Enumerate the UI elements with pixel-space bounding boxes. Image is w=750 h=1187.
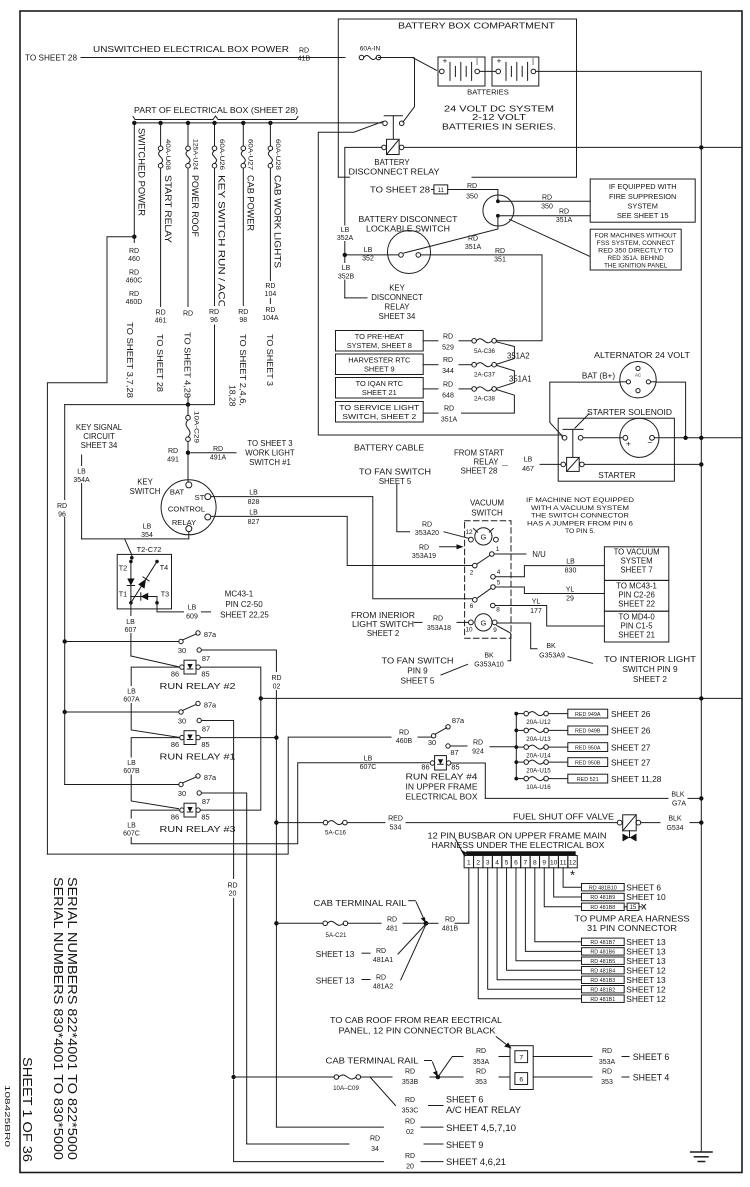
svg-text:RD: RD [444, 406, 454, 413]
svg-text:RD: RD [473, 739, 483, 746]
node column x=270.4 [268, 121, 272, 125]
jumpers 351A2 351A1 [495, 340, 497, 343]
svg-text:353: 353 [601, 1079, 613, 1086]
svg-text:RD: RD [129, 248, 139, 255]
blade wire down-left [318, 122, 562, 438]
svg-text:30: 30 [428, 738, 436, 747]
fuse 10A-C09 [334, 1075, 339, 1080]
svg-text:RD 481B5: RD 481B5 [590, 959, 615, 965]
svg-text:60A-U27: 60A-U27 [247, 139, 254, 171]
svg-text:FUEL SHUT OFF VALVE: FUEL SHUT OFF VALVE [513, 813, 615, 822]
svg-text:353: 353 [475, 1079, 487, 1086]
svg-text:RD: RD [443, 357, 453, 364]
svg-text:SHEET 13: SHEET 13 [626, 937, 666, 947]
wire RD 351A row4 [423, 412, 438, 414]
svg-text:SHEET 13: SHEET 13 [316, 977, 355, 986]
svg-text:FOR MACHINES WITHOUT: FOR MACHINES WITHOUT [595, 233, 677, 240]
svg-text:RD: RD [265, 307, 275, 314]
svg-text:LB: LB [249, 490, 258, 497]
svg-text:85: 85 [201, 670, 209, 679]
svg-text:TO PRE-HEAT: TO PRE-HEAT [355, 332, 404, 341]
svg-text:5: 5 [505, 860, 509, 867]
busbar pin boxes 1-12 [464, 856, 473, 868]
svg-text:PANEL, 12 PIN CONNECTOR BLACK: PANEL, 12 PIN CONNECTOR BLACK [339, 1027, 497, 1036]
svg-text:RD: RD [559, 209, 569, 216]
svg-text:SHEET 10: SHEET 10 [626, 892, 666, 902]
arrow to connector from PANEL text [496, 1037, 509, 1047]
svg-text:SERIAL NUMBERS 822*4001 TO 822: SERIAL NUMBERS 822*4001 TO 822*5000 [65, 877, 79, 1160]
svg-text:491: 491 [167, 457, 179, 464]
svg-text:RD: RD [495, 248, 505, 255]
svg-text:CAB TERMINAL RAIL: CAB TERMINAL RAIL [326, 1057, 420, 1066]
svg-text:351A2: 351A2 [507, 352, 530, 361]
svg-text:RED 949A: RED 949A [575, 712, 601, 718]
svg-text:PIN C2-50: PIN C2-50 [225, 600, 263, 609]
wire RD 353A diagonal and to pin 7 [438, 1057, 463, 1078]
diode D2 diagonal T1-T4 [131, 562, 157, 603]
svg-text:344: 344 [442, 368, 454, 375]
svg-text:LB: LB [127, 760, 136, 767]
wire: fuse node down to disconnect switch [403, 58, 415, 122]
svg-text:POWER ROOF: POWER ROOF [190, 175, 200, 237]
svg-text:12: 12 [569, 860, 577, 867]
node column x=188.0 [186, 121, 190, 125]
wire LB607C chain to relay4 [131, 810, 180, 818]
svg-text:LB: LB [566, 559, 575, 566]
svg-text:RD: RD [399, 730, 409, 737]
svg-text:RD: RD [405, 1119, 415, 1126]
svg-text:LB: LB [524, 457, 533, 464]
svg-text:125A-U24: 125A-U24 [191, 139, 198, 170]
svg-text:PIN 9: PIN 9 [407, 667, 428, 676]
svg-text:START RELAY: START RELAY [163, 175, 173, 243]
labels RD460 stack [120, 243, 149, 307]
svg-text:RD: RD [422, 522, 432, 529]
wire RD 491A [191, 452, 236, 454]
svg-text:TO SERVICE LIGHT: TO SERVICE LIGHT [339, 403, 420, 412]
svg-text:9: 9 [493, 627, 497, 634]
svg-text:352B: 352B [338, 274, 355, 281]
svg-text:2: 2 [470, 570, 474, 577]
brace: part of electrical box [133, 116, 298, 120]
pin 2 [473, 563, 478, 568]
label RD 461 [149, 307, 172, 326]
svg-text:G7A: G7A [672, 801, 686, 808]
wire: L to left bus [47, 237, 134, 854]
svg-text:RD: RD [168, 448, 178, 455]
svg-text:SHEET 6: SHEET 6 [626, 882, 661, 892]
svg-text:TO MC43-1: TO MC43-1 [616, 582, 657, 591]
wire RD 353A18 [414, 621, 422, 623]
leader 12 pin busbar [456, 839, 465, 856]
svg-text:LB: LB [127, 823, 136, 830]
label RD 96 col4 [203, 306, 226, 325]
wire relay2 87 -> RD02 [201, 650, 276, 672]
svg-text:RUN RELAY #3: RUN RELAY #3 [160, 825, 236, 834]
svg-text:THE IGNITION PANEL: THE IGNITION PANEL [604, 263, 668, 270]
svg-text:LB: LB [77, 469, 86, 476]
svg-text:1: 1 [496, 546, 500, 553]
svg-text:TO PUMP AREA HARNESS: TO PUMP AREA HARNESS [575, 915, 690, 924]
wire LB 352 [345, 254, 399, 256]
svg-text:353A18: 353A18 [427, 625, 451, 632]
svg-text:41B: 41B [298, 56, 311, 63]
svg-text:4: 4 [497, 569, 501, 576]
wire RD924 to fuse bank [450, 745, 467, 747]
svg-text:11: 11 [438, 188, 445, 194]
svg-text:02: 02 [273, 684, 281, 691]
label LB 354 [136, 521, 158, 538]
svg-text:9: 9 [542, 860, 546, 867]
svg-text:STARTER SOLENOID: STARTER SOLENOID [587, 408, 672, 417]
svg-text:RD 481B8: RD 481B8 [590, 905, 615, 911]
svg-text:SHEET 5: SHEET 5 [401, 677, 435, 686]
svg-text:SHEET 6: SHEET 6 [446, 1095, 483, 1105]
label RD 20 vertical [222, 879, 244, 898]
svg-text:481A2: 481A2 [373, 984, 393, 991]
connector 12pin black: outer box [510, 1046, 533, 1090]
sheet label boxes [582, 884, 625, 891]
svg-text:RD: RD [405, 1097, 415, 1104]
fuse 10A-C29 [187, 405, 189, 416]
svg-text:IF MACHINE NOT EQUIPPED: IF MACHINE NOT EQUIPPED [526, 497, 634, 504]
svg-text:SYSTEM: SYSTEM [628, 202, 658, 211]
svg-text:DISCONNECT RELAY: DISCONNECT RELAY [349, 168, 441, 177]
label RD 96 left [52, 500, 73, 517]
svg-text:RD: RD [156, 310, 166, 317]
svg-text:SHEET 34: SHEET 34 [81, 441, 118, 450]
svg-text:TO SHEET 3,7,28: TO SHEET 3,7,28 [125, 322, 135, 398]
battery box compartment outline [338, 19, 576, 177]
svg-text:RED 950B: RED 950B [575, 760, 601, 766]
svg-text:30: 30 [178, 717, 186, 726]
svg-text:6: 6 [519, 1076, 523, 1083]
svg-text:LB: LB [188, 605, 197, 612]
svg-text:PART OF ELECTRICAL BOX (SHEET: PART OF ELECTRICAL BOX (SHEET 28) [134, 106, 298, 115]
battery disconnect relay coil K1 [387, 139, 400, 154]
node column x=243.3 [241, 121, 245, 125]
leader cab terminal rail [409, 900, 416, 902]
label LB 354A [70, 466, 94, 483]
svg-text:ALTERNATOR 24 VOLT: ALTERNATOR 24 VOLT [594, 351, 690, 360]
svg-text:—: — [502, 463, 508, 469]
svg-text:T1: T1 [119, 590, 127, 599]
svg-text:LB: LB [127, 689, 136, 696]
svg-text:BATTERY BOX COMPARTMENT: BATTERY BOX COMPARTMENT [398, 21, 555, 31]
svg-text:YL: YL [532, 599, 541, 606]
wire RD 353A20 [397, 484, 410, 531]
svg-text:BLK: BLK [668, 816, 682, 823]
svg-text:PIN C1-5: PIN C1-5 [621, 622, 654, 631]
svg-text:RED 950A: RED 950A [575, 745, 601, 751]
svg-text:352: 352 [362, 256, 374, 263]
svg-text:N/U: N/U [532, 550, 546, 559]
label LB 352B [334, 263, 357, 280]
ignition switch S2 [483, 195, 514, 226]
svg-text:351A1: 351A1 [509, 375, 532, 384]
svg-text:KEY SWITCH RUN / ACC: KEY SWITCH RUN / ACC [217, 175, 227, 308]
svg-text:RD: RD [602, 1048, 612, 1055]
svg-text:353A: 353A [473, 1059, 490, 1066]
svg-text:TO FAN SWITCH: TO FAN SWITCH [382, 657, 454, 666]
svg-text:SHEET 22,25: SHEET 22,25 [220, 611, 269, 620]
svg-text:STARTER: STARTER [598, 471, 636, 480]
svg-text:10A-C29: 10A-C29 [193, 411, 200, 444]
svg-text:830: 830 [565, 568, 577, 575]
svg-text:87a: 87a [204, 773, 217, 782]
svg-text:CAB WORK LIGHTS: CAB WORK LIGHTS [273, 175, 283, 268]
svg-text:RD 481B7: RD 481B7 [590, 940, 615, 946]
svg-text:RD: RD [542, 195, 552, 202]
svg-text:SEE SHEET 15: SEE SHEET 15 [617, 211, 669, 220]
svg-text:351: 351 [494, 257, 506, 264]
svg-text:RD: RD [602, 1069, 612, 1076]
svg-text:RD 481B10: RD 481B10 [589, 885, 617, 891]
relay RUN RELAY #2 [179, 639, 183, 643]
svg-text:SHEET 1 OF 36: SHEET 1 OF 36 [20, 1057, 34, 1162]
svg-text:18,28: 18,28 [228, 385, 238, 407]
label LB 607C left [119, 820, 145, 837]
svg-text:G: G [480, 533, 486, 542]
svg-text:RD: RD [476, 1048, 486, 1055]
svg-text:20A-U14: 20A-U14 [526, 753, 551, 760]
wire RD 351A diagonal to lockable switch [404, 216, 498, 253]
svg-text:LIGHT SWITCH: LIGHT SWITCH [352, 620, 414, 629]
svg-text:RD: RD [227, 883, 237, 890]
svg-text:352A: 352A [337, 235, 354, 242]
connector 15 box [624, 906, 627, 908]
svg-text:460D: 460D [126, 299, 143, 306]
arrow RD 353A19 [440, 546, 460, 548]
svg-text:LB: LB [364, 756, 373, 763]
node column x=214.5 [212, 121, 216, 125]
svg-text:SHEET 12: SHEET 12 [626, 994, 666, 1004]
svg-text:30: 30 [178, 789, 186, 798]
svg-text:353A20: 353A20 [415, 530, 439, 537]
svg-text:LB: LB [143, 524, 152, 531]
pin 1 [490, 552, 495, 557]
pin 8 [491, 603, 496, 608]
wire between batteries [480, 70, 496, 72]
svg-text:SHEET 4: SHEET 4 [633, 1073, 670, 1083]
wires pins 2-11 to sheet boxes [563, 868, 581, 887]
svg-text:SHEET 2: SHEET 2 [633, 675, 667, 684]
motor G bottom [475, 614, 492, 631]
svg-text:353C: 353C [402, 1108, 419, 1115]
svg-text:SHEET 13: SHEET 13 [626, 956, 666, 966]
label TO SHEET 3,7,28 [130, 311, 132, 318]
svg-text:TO MD4-0: TO MD4-0 [618, 613, 655, 622]
svg-text:SHEET 5: SHEET 5 [379, 477, 412, 486]
svg-text:353A: 353A [599, 1059, 616, 1066]
svg-text:−: − [647, 437, 652, 447]
svg-text:10A-U16: 10A-U16 [526, 784, 551, 791]
svg-text:RD 481B4: RD 481B4 [590, 968, 615, 974]
coil left wire to LB352 node [345, 147, 382, 252]
svg-text:G353A10: G353A10 [474, 662, 504, 669]
wire T3 to LB609 [157, 603, 184, 612]
svg-text:LB: LB [126, 619, 135, 626]
svg-text:104: 104 [265, 291, 277, 298]
relay RUN RELAY #3 [179, 782, 183, 786]
fuse 20A-U12 [514, 712, 518, 716]
svg-text:BK: BK [546, 643, 556, 650]
wire RD 34 exit [247, 1143, 349, 1146]
svg-text:+: + [626, 438, 631, 448]
label LB 607A [119, 686, 145, 703]
svg-text:KEY: KEY [137, 478, 153, 487]
wire YL 177 [495, 606, 604, 627]
svg-text:351A: 351A [465, 244, 482, 251]
svg-text:RED 949B: RED 949B [575, 729, 601, 735]
svg-text:RD: RD [238, 309, 248, 316]
leader cab terminal rail 2 [425, 1060, 432, 1062]
svg-text:460B: 460B [396, 738, 413, 745]
svg-text:SHEET 26: SHEET 26 [611, 709, 651, 719]
svg-text:TO INTERIOR LIGHT: TO INTERIOR LIGHT [604, 655, 696, 664]
wire LB 827 [211, 516, 473, 565]
svg-text:RD: RD [405, 1153, 415, 1160]
alternator G1 [620, 362, 656, 398]
svg-text:534: 534 [390, 825, 402, 832]
svg-text:SHEET 4,5,7,10: SHEET 4,5,7,10 [446, 1123, 516, 1133]
wire RD 350 to ignition sw [432, 189, 434, 191]
svg-text:SHEET 21: SHEET 21 [618, 631, 655, 640]
svg-text:34: 34 [371, 1146, 379, 1153]
fuse 20A-U14 [514, 745, 518, 749]
svg-text:491A: 491A [210, 455, 227, 462]
svg-text:FROM INERIOR: FROM INERIOR [351, 611, 415, 620]
svg-text:7: 7 [524, 860, 528, 867]
svg-text:TO VACUUM: TO VACUUM [614, 548, 660, 557]
svg-text:20A-U15: 20A-U15 [526, 768, 551, 775]
svg-text:87: 87 [202, 725, 210, 734]
wire to battery + [413, 58, 436, 71]
svg-text:461: 461 [155, 318, 167, 325]
battery disconnect switch contacts [383, 121, 388, 126]
svg-text:10A–C09: 10A–C09 [333, 1085, 359, 1092]
svg-text:RUN RELAY #1: RUN RELAY #1 [160, 753, 236, 762]
wire RD 351A right [500, 215, 590, 217]
svg-text:TO IQAN RTC: TO IQAN RTC [356, 379, 404, 388]
svg-text:98: 98 [239, 317, 247, 324]
svg-text:29: 29 [566, 596, 574, 603]
svg-text:607C: 607C [360, 764, 377, 771]
svg-text:KEY: KEY [389, 284, 405, 293]
svg-text:RD: RD [405, 1069, 415, 1076]
svg-text:RELAY: RELAY [474, 458, 500, 467]
wire LB607B chain [131, 738, 180, 809]
svg-text:607A: 607A [123, 697, 140, 704]
svg-text:A/C HEAT RELAY: A/C HEAT RELAY [446, 1105, 521, 1115]
diode pack T2-C72 [117, 554, 171, 609]
note box: for machines without FSS [590, 229, 681, 270]
wire YL 29 [495, 587, 604, 594]
svg-text:20: 20 [406, 1164, 414, 1171]
connector 11 box [434, 185, 448, 194]
wire RD460B loop to relay4 30 [47, 737, 391, 854]
wire RD 353 to pin 6 connector [438, 1076, 463, 1078]
svg-text:5A-C16: 5A-C16 [325, 830, 347, 837]
svg-text:12: 12 [465, 529, 473, 536]
svg-text:+: + [443, 57, 448, 66]
svg-text:LB: LB [341, 227, 350, 234]
svg-text:104A: 104A [262, 315, 279, 322]
node column x=160.6 [158, 121, 162, 125]
svg-text:G534: G534 [666, 825, 683, 832]
fuse 20A-U13 [514, 729, 518, 733]
svg-text:IF EQUIPPED WITH: IF EQUIPPED WITH [609, 182, 677, 191]
svg-text:LOCKABLE SWITCH: LOCKABLE SWITCH [366, 225, 450, 234]
svg-text:SHEET 11,28: SHEET 11,28 [611, 774, 662, 784]
svg-text:86: 86 [171, 670, 179, 679]
svg-text:85: 85 [451, 763, 459, 772]
wire LB 467 [540, 463, 561, 465]
svg-text:86: 86 [171, 813, 179, 822]
svg-text:SHEET 2: SHEET 2 [367, 629, 399, 638]
svg-text:BLK: BLK [671, 792, 685, 799]
svg-text:HARNESS UNDER THE ELECTRICAL B: HARNESS UNDER THE ELECTRICAL BOX [432, 841, 606, 850]
svg-text:RUN RELAY #4: RUN RELAY #4 [406, 773, 479, 782]
svg-text:TO SHEET 28: TO SHEET 28 [155, 334, 165, 392]
svg-text:CAB TERMINAL RAIL: CAB TERMINAL RAIL [314, 899, 408, 908]
svg-text:RD: RD [370, 1136, 380, 1143]
svg-text:87a: 87a [452, 716, 465, 725]
svg-text:3: 3 [486, 860, 490, 867]
svg-text:31 PIN CONNECTOR: 31 PIN CONNECTOR [587, 924, 677, 933]
svg-text:460C: 460C [126, 278, 143, 285]
fuse bank feed [515, 714, 517, 779]
svg-text:TO FAN SWITCH: TO FAN SWITCH [359, 468, 431, 477]
svg-text:RD: RD [419, 545, 429, 552]
svg-text:8: 8 [533, 860, 537, 867]
svg-text:SWITCH #1: SWITCH #1 [249, 458, 291, 467]
sheet dest boxes left [336, 331, 424, 352]
svg-text:RD 481B1: RD 481B1 [590, 997, 615, 1003]
svg-text:6: 6 [470, 603, 474, 610]
svg-text:SWITCHED POWER: SWITCHED POWER [137, 128, 147, 216]
svg-text:87a: 87a [204, 630, 217, 639]
fuel shut off valve V1 [617, 820, 622, 825]
diode D3 horizontal T1-T3 [131, 596, 157, 598]
svg-text:ELECTRICAL BOX: ELECTRICAL BOX [406, 793, 479, 802]
fuse 5A-C16 [274, 820, 278, 824]
svg-text:86: 86 [421, 763, 429, 772]
starter relay coil K2 [567, 457, 580, 471]
svg-text:2A-C38: 2A-C38 [474, 396, 496, 403]
wire relay1 87 -> RD20 [201, 721, 233, 1075]
svg-text:30: 30 [178, 646, 186, 655]
svg-text:RD 481B6: RD 481B6 [590, 950, 615, 956]
svg-text:TO PIN 5.: TO PIN 5. [565, 528, 595, 535]
svg-text:SWITCH: SWITCH [130, 487, 161, 496]
svg-text:87: 87 [450, 748, 458, 757]
svg-text:SHEET 13: SHEET 13 [316, 950, 355, 959]
svg-text:YL: YL [566, 587, 575, 594]
label RD 98 [232, 306, 255, 325]
svg-text:SHEET 9: SHEET 9 [364, 364, 395, 373]
battery B2 [492, 57, 539, 86]
svg-text:RED 351A. BEHIND: RED 351A. BEHIND [608, 255, 665, 262]
fuse 60A-IN [359, 55, 364, 60]
label RD 104 + RD104A [258, 281, 284, 298]
wire RD 350 right [500, 200, 590, 202]
svg-text:609: 609 [186, 614, 198, 621]
fuse 20A-U15 [514, 760, 518, 764]
relay RUN RELAY #1 [179, 710, 183, 714]
svg-text:FIRE SUPPRESION: FIRE SUPPRESION [609, 192, 676, 201]
svg-text:SHEET 27: SHEET 27 [611, 742, 651, 752]
